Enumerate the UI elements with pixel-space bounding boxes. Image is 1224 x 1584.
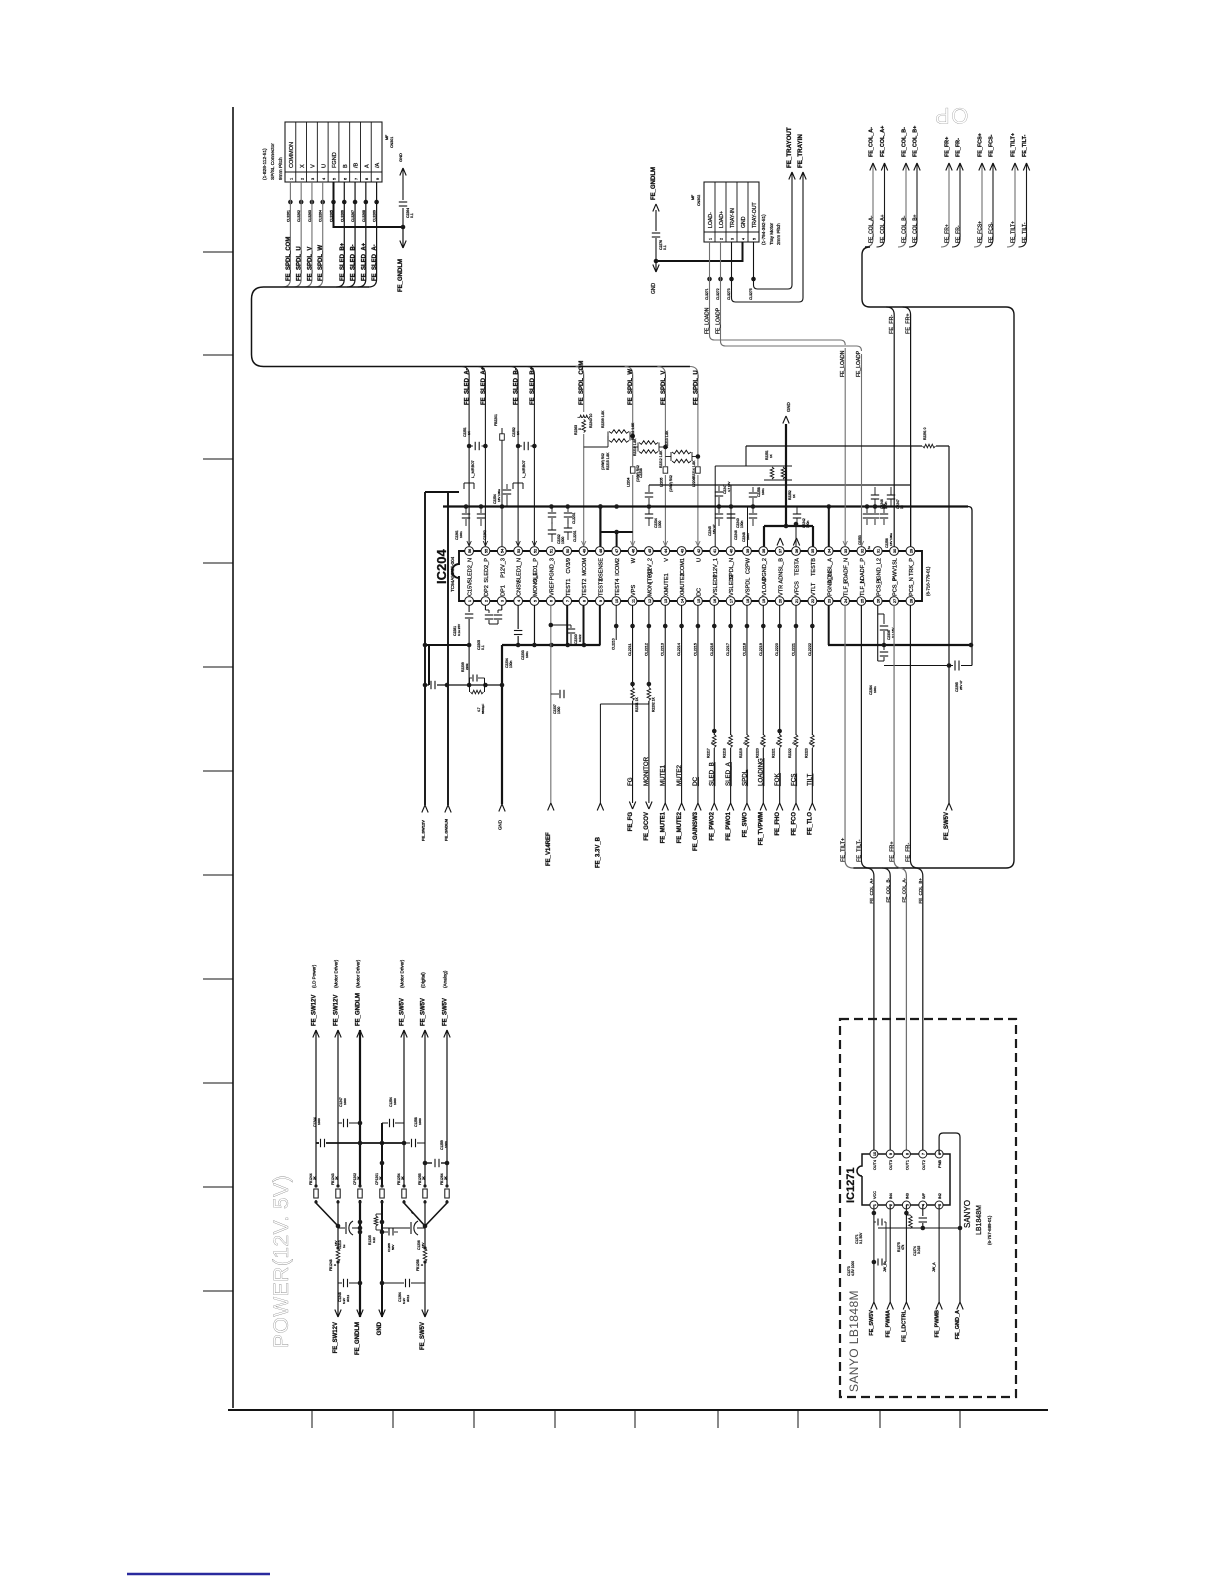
resistor pair R2211/R2212 [637,443,639,452]
svg-text:CL2214: CL2214 [677,643,681,656]
svg-text:(6-757-689-01): (6-757-689-01) [987,1215,992,1245]
wire FE_3.3V_B [632,701,634,704]
capacitor C1259 [425,1162,432,1164]
svg-text:FE_COL_B+: FE_COL_B+ [912,126,918,157]
resistor pair R2209/R2210 [607,432,609,441]
svg-text:GND: GND [377,1321,383,1335]
capacitor C2246b below rail [729,504,734,509]
svg-text:FE_TILT-: FE_TILT- [1022,134,1028,157]
capacitor C2234 [648,506,650,514]
svg-text:R2213 1.8K: R2213 1.8K [665,430,669,448]
svg-text:3K: 3K [444,1176,448,1180]
svg-text:3: 3 [500,600,505,602]
wire P12V riser pin54 [501,428,503,547]
wire FE_FR- from IC to lower bus [910,605,918,868]
svg-text:IN3: IN3 [905,1193,909,1199]
svg-text:4.5V 1000: 4.5V 1000 [851,1261,855,1276]
svg-text:8: 8 [581,600,586,602]
svg-text:TESTB: TESTB [811,558,817,576]
junction CL2221 [794,624,799,629]
svg-text:FE_LOADN: FE_LOADN [840,350,846,377]
svg-text:CL2216: CL2216 [710,643,714,656]
svg-text:SLED2_N: SLED2_N [468,558,474,583]
svg-text:25V 47: 25V 47 [959,680,963,690]
svg-text:7: 7 [354,178,358,180]
junction node CL pin1 [288,200,293,205]
capacitor C1258 [404,1142,410,1144]
svg-text:6800pF: 6800pF [481,704,485,714]
svg-text:42: 42 [696,549,701,553]
inductor FB2201 [500,434,505,440]
svg-text:FE_PWMB: FE_PWMB [934,1310,940,1338]
page border bottom line [228,1409,1048,1411]
svg-text:FE_FR-: FE_FR- [955,138,961,157]
wire FE_SLED_B- from bus down to IC204 [510,367,518,547]
wire FE_SLED_A+ from CN301 to bus [358,182,366,287]
svg-text:13: 13 [663,599,668,603]
svg-text:L2204: L2204 [627,477,631,487]
svg-text:2: 2 [483,600,488,602]
svg-text:100n: 100n [459,531,463,538]
rail inside SANYO box [878,1227,960,1229]
svg-text:GND: GND [498,819,503,830]
svg-text:FE_SW12V: FE_SW12V [333,995,339,1026]
svg-text:CL3271: CL3271 [705,288,709,300]
wire signal line pin15 [697,605,699,803]
power rail above IC204 [443,505,968,507]
inductor FB1243 [335,1187,341,1200]
resistor R2222 on pin21 [792,735,800,748]
svg-text:1000: 1000 [317,1118,321,1125]
junction dots on power rail [647,504,652,509]
capacitor C1244 row [316,1142,319,1144]
wire FE_SLED_A- from bus down to IC204 [461,367,469,547]
svg-text:SLED_B: SLED_B [709,762,716,786]
capacitor C2242 [796,506,798,514]
svg-text:9: 9 [598,600,603,602]
svg-text:TRAY-IN: TRAY-IN [730,208,736,228]
svg-text:32: 32 [859,549,864,553]
svg-text:OP: OP [934,103,969,128]
svg-text:CL2210: CL2210 [612,638,616,650]
svg-text:FGND: FGND [332,152,338,168]
junction node CL pin4 [320,200,325,205]
wire signal line pin16 [713,605,715,803]
resistor R1244 [334,1249,342,1262]
svg-text:B: B [343,164,349,168]
junction node CL pin5 [331,200,336,205]
svg-text:16: 16 [712,599,717,603]
svg-text:DSENSE: DSENSE [598,558,604,581]
terminal GND below [501,645,503,804]
capacitor C1273 [874,1261,876,1263]
svg-text:19: 19 [761,599,766,603]
resistor R2201 pin11 [629,687,637,701]
svg-text:1000: 1000 [418,1118,422,1125]
wire FE_SW5V vertical [948,446,950,803]
svg-text:7: 7 [565,600,570,602]
inductor L2204 on SPDL line [630,466,636,475]
svg-text:25: 25 [859,599,864,603]
svg-text:0.022: 0.022 [578,634,582,642]
svg-text:3R12: 3R12 [406,1294,410,1302]
svg-text:FE_SW5V: FE_SW5V [420,998,426,1026]
svg-text:IC1271: IC1271 [845,1168,857,1203]
wire pin5 stub [533,605,535,645]
svg-text:FE_COL_B-: FE_COL_B- [901,215,907,243]
svg-text:VSPDL: VSPDL [746,578,752,596]
terminal FE_SW12V (LD Power) [313,1030,316,1038]
wire FE_COL_A+ from bus to IC1271 [866,868,874,1154]
svg-text:FE_SW5V: FE_SW5V [442,998,448,1026]
svg-text:17: 17 [729,599,734,603]
capacitor C1274 [922,1205,924,1216]
svg-text:35: 35 [810,549,815,553]
svg-text:22: 22 [810,599,815,603]
resistor R2218 on pin17 [727,735,735,748]
svg-text:TEST1: TEST1 [566,579,572,596]
svg-text:5: 5 [333,178,337,180]
junction dots rail A more [549,504,554,509]
wire CN302 GND pin4 [656,242,743,261]
svg-text:CL2222: CL2222 [808,643,812,656]
svg-text:FE_PWMA: FE_PWMA [886,1310,892,1338]
inductor CP1202 [357,1187,363,1200]
svg-text:38: 38 [761,549,766,553]
svg-text:VCC: VCC [873,1191,877,1199]
svg-text:TESTA: TESTA [795,558,801,576]
svg-text:33: 33 [843,549,848,553]
svg-text:3K: 3K [422,1176,426,1180]
svg-text:FE_LOADP: FE_LOADP [716,307,722,334]
wire FE_COL_B- OP terminal [898,163,906,247]
svg-text:FE_FR+: FE_FR+ [906,313,912,334]
terminal FE_GNDLM below [402,227,404,248]
svg-text:1: 1 [709,238,713,240]
wire signal line pin21 [795,605,797,803]
svg-text:FE_COL_A-: FE_COL_A- [868,215,874,243]
svg-text:FE_SW5V: FE_SW5V [869,1310,875,1336]
svg-text:0.1: 0.1 [663,245,667,250]
svg-text:CL2212: CL2212 [644,643,648,656]
wire pin9 stub [599,605,601,645]
svg-text:R2202 1K: R2202 1K [651,697,655,712]
svg-text:FCS: FCS [790,774,797,786]
junction node CL pin8 [364,200,369,205]
wire FE_FR- OP terminal [952,163,960,247]
wire signal line pin19 [762,605,764,803]
svg-text:2mm Pitch: 2mm Pitch [776,223,781,245]
resistor R2202 pin12 [645,687,653,701]
svg-text:FG: FG [627,777,634,786]
junction CL3273 [729,277,734,282]
capacitor C2248 below rail [751,504,756,509]
svg-text:31: 31 [876,549,881,553]
inductor FB1254 [401,1187,407,1200]
svg-text:CL2231: CL2231 [572,512,576,524]
svg-text:1000: 1000 [393,1098,397,1105]
junction dots ground bus [516,643,521,648]
svg-text:MF: MF [691,194,695,200]
svg-text:FE_COL_A+: FE_COL_A+ [869,878,874,904]
junction CL2222 [810,624,815,629]
svg-text:CNSV: CNSV [517,580,523,596]
wire pin23 stub [828,605,830,645]
svg-text:FE_SW5V: FE_SW5V [944,812,950,840]
svg-text:9mm Pitch: 9mm Pitch [278,157,284,180]
wire FE_SPDL_COM from CN301 to bus [282,182,290,287]
svg-text:OUT2: OUT2 [922,1160,926,1170]
blue underline mark bottom-left [127,1573,270,1575]
ground lead [785,424,787,526]
svg-text:100n: 100n [873,686,877,693]
svg-text:FE_GAINSW3: FE_GAINSW3 [693,811,699,851]
capacitor C2261 below rail left [464,504,469,509]
svg-text:OUT4: OUT4 [873,1160,877,1170]
svg-text:FE_FHO: FE_FHO [775,812,781,836]
svg-text:A: A [364,164,370,168]
svg-text:FE_SLED_B-: FE_SLED_B- [514,368,520,405]
svg-text:FE_SW5V: FE_SW5V [399,998,405,1026]
capacitor C2203 pin4 [517,605,519,629]
wire FE_FR+ from IC to lower bus [894,605,902,868]
svg-text:CV3/9: CV3/9 [566,558,572,574]
wire IC1271 pin5 [938,1205,940,1302]
svg-text:56: 56 [467,549,472,553]
wire power line7 5V [446,1030,448,1203]
svg-text:GND: GND [786,402,791,412]
svg-text:FE_FG: FE_FG [628,812,634,832]
capacitor C2247 [890,487,892,495]
ground terminal GND [783,416,786,424]
svg-text:CL3272: CL3272 [716,288,720,300]
svg-text:FE_COL_B+: FE_COL_B+ [912,214,918,243]
svg-text:15: 15 [696,599,701,603]
svg-text:1K: 1K [769,454,773,458]
svg-text:PCS_P: PCS_P [893,577,899,596]
svg-text:FE_V14REF: FE_V14REF [546,832,552,866]
svg-text:R2291 0: R2291 0 [923,427,927,440]
svg-text:ICOM1: ICOM1 [680,558,686,576]
svg-text:6: 6 [343,178,347,180]
capacitor C2264 [399,201,407,203]
svg-text:0.1: 0.1 [410,213,414,218]
svg-text:(Motor Driver): (Motor Driver) [333,959,338,988]
OP bus sweep [862,247,1014,315]
wire FE_SPDL_V from bus down to IC204 [657,367,665,547]
svg-text:R2223: R2223 [804,748,808,758]
capacitor C1271 [874,1221,876,1223]
svg-text:100n: 100n [746,533,750,540]
svg-text:DP2: DP2 [484,585,490,596]
svg-text:100n: 100n [525,651,529,658]
svg-text:W: W [631,557,637,563]
IC204 bottom pin circles 1-28 [465,597,474,606]
junction power merge [336,1224,341,1229]
wire FE_COL_B+ OP terminal [909,163,917,247]
wire signal line pin18 [746,605,748,803]
inductor FB1244 [313,1187,319,1200]
wire C2295 link [884,665,949,667]
junction CL2217 [728,624,733,629]
svg-text:JW_A: JW_A [932,1262,936,1272]
svg-text:FE_GNDLM: FE_GNDLM [355,1322,361,1355]
capacitor C2231b [567,506,569,512]
wire FE_COL_A+ OP terminal [877,163,885,247]
svg-text:FE_SLED_A+: FE_SLED_A+ [481,366,487,405]
svg-text:CL3262: CL3262 [297,210,301,222]
svg-text:(1/4W) R02: (1/4W) R02 [669,475,673,492]
svg-text:FE_FR+: FE_FR+ [889,841,895,862]
svg-text:FE_SWO: FE_SWO [742,812,748,838]
svg-text:FE_GNDLM: FE_GNDLM [444,818,449,841]
svg-text:/B: /B [354,162,360,168]
terminal FE_SW5V (Analog) [444,1030,447,1038]
capacitor C2258 above rail [752,487,754,492]
svg-text:PGND_L1: PGND_L1 [827,571,833,597]
svg-text:C2262: C2262 [483,530,487,540]
svg-text:4: 4 [322,178,326,180]
wire FE_SPDL_V from CN301 to bus [304,182,312,287]
capacitor C2306 [878,613,884,615]
terminal FE_GNDLM (Motor Driver) [357,1030,360,1038]
svg-text:L_MRB07: L_MRB07 [521,459,526,478]
svg-text:48: 48 [598,549,603,553]
svg-text:L_MRB07: L_MRB07 [470,459,475,478]
svg-text:VTR: VTR [778,585,784,596]
svg-text:LOADING: LOADING [758,758,765,786]
resistor R2263 on FE_SPDL_COM [578,418,588,434]
svg-text:FE_SW12V: FE_SW12V [421,820,426,841]
terminal GND below CN302 [655,261,657,272]
svg-text:VTLT: VTLT [811,582,817,596]
svg-text:CL2215: CL2215 [693,643,697,656]
svg-text:CL3261: CL3261 [286,210,290,222]
svg-text:CL2211: CL2211 [628,643,632,656]
ground bus below IC204 right [828,644,971,646]
svg-text:CL2231: CL2231 [573,530,577,542]
svg-text:MF: MF [385,134,389,140]
svg-text:1000: 1000 [557,706,561,714]
resistor R2217 on pin16 [710,735,718,748]
svg-text:FE_MUTE1: FE_MUTE1 [661,811,667,843]
svg-text:FE_SW5V: FE_SW5V [420,1322,426,1350]
wire FE_FCS- OP terminal [985,163,993,247]
wire FE_FR- from OP bus to IC pin30 [886,307,894,547]
svg-text:FE_TILT-: FE_TILT- [857,839,863,862]
svg-text:FE_TLO: FE_TLO [808,812,814,835]
wire power line2 12V [337,1030,339,1317]
capacitor C2255 triple b [873,504,878,509]
svg-text:1: 1 [467,600,472,602]
IC204 top pin circles 56-29 [465,547,474,556]
inductor bracket L2251 [464,482,474,484]
svg-text:FE_FCO: FE_FCO [791,812,797,836]
svg-text:FE_SPDL_U: FE_SPDL_U [297,246,303,281]
capacitor C2281 below pin1 [468,605,470,612]
wire signal line pin11 [632,605,634,803]
wire power line6 5V [424,1030,426,1317]
capacitor C1206 electrolytic [382,1227,410,1229]
svg-text:Tray Motor: Tray Motor [769,222,774,245]
svg-text:FE_LOADN: FE_LOADN [705,307,711,334]
svg-text:12: 12 [647,599,652,603]
svg-text:FE_FCS-: FE_FCS- [988,222,994,243]
svg-text:18: 18 [745,599,750,603]
svg-text:2: 2 [720,238,724,240]
svg-text:FE_TRAYIN: FE_TRAYIN [797,134,804,168]
svg-text:X: X [300,164,306,168]
svg-text:FE_FR+: FE_FR+ [944,224,950,243]
svg-text:47k: 47k [901,1244,905,1250]
svg-text:FE_GNDLM: FE_GNDLM [398,259,404,292]
svg-text:FE_SPDL_W: FE_SPDL_W [628,369,634,405]
svg-text:100n: 100n [509,660,513,668]
capacitor C1254 [382,1122,388,1124]
svg-text:52: 52 [532,549,537,553]
svg-text:3: 3 [311,178,315,180]
svg-text:CL3275: CL3275 [749,288,753,300]
svg-text:FE_TILT+: FE_TILT+ [1010,133,1016,157]
svg-text:51: 51 [549,549,554,553]
svg-text:FE_SPDL_COM: FE_SPDL_COM [579,361,585,405]
svg-text:53: 53 [516,549,521,553]
svg-text:5: 5 [532,600,537,602]
svg-text:0.1 50V: 0.1 50V [859,1232,863,1244]
svg-text:PCS_1: PCS_1 [876,578,882,596]
svg-text:5: 5 [753,238,757,240]
svg-text:7: 7 [921,1153,926,1155]
wire cluster rail [425,684,429,686]
wire IC1271 pin3 [905,1205,907,1302]
wire signal line pin17 [730,605,732,803]
svg-text:CL2219: CL2219 [759,643,763,656]
resistor R2291 [922,441,936,451]
svg-text:IC204: IC204 [434,549,449,584]
svg-text:R2222: R2222 [788,748,792,758]
wire FE_FR+ OP terminal [941,163,949,247]
svg-text:FOK: FOK [774,772,781,786]
svg-text:CL3263: CL3263 [308,210,312,222]
svg-text:FE_LOADP: FE_LOADP [856,350,862,377]
wire pin26 stub [877,605,879,661]
svg-text:FE_SLED_B+: FE_SLED_B+ [340,242,346,281]
svg-text:100n: 100n [761,488,765,495]
svg-text:GND: GND [651,283,657,295]
resistor R2220 on pin19 [759,735,767,748]
capacitor C2254 [506,484,508,489]
svg-text:FE_SW12V: FE_SW12V [311,995,317,1026]
svg-text:IN4: IN4 [889,1193,893,1199]
svg-text:R2220: R2220 [755,748,759,758]
svg-text:R2211 1.8K: R2211 1.8K [631,422,635,440]
svg-text:GND: GND [741,216,747,228]
svg-text:100n: 100n [740,520,744,528]
wire FE_SW12V left rail [424,492,426,805]
svg-text:CL3273: CL3273 [727,288,731,300]
svg-text:(1-828-112-51): (1-828-112-51) [262,148,268,180]
svg-text:0: 0 [578,428,582,430]
svg-text:FE_FCS+: FE_FCS+ [977,221,983,243]
ground bracket above pins 35-38 [764,525,813,527]
svg-text:SLED1_N: SLED1_N [517,558,523,583]
svg-text:R2240 10: R2240 10 [589,414,593,428]
bottom ruler tick marks [311,1410,313,1428]
svg-text:R2217: R2217 [706,748,710,758]
svg-text:LOAD-: LOAD- [708,212,714,228]
capacitor C2276 [655,210,657,231]
svg-text:FE_SLED_A-: FE_SLED_A- [465,368,471,405]
